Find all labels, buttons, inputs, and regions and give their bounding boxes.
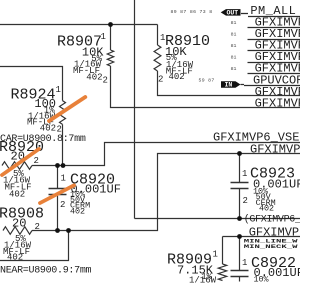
resistor R8910 body <box>154 45 161 71</box>
svg-text:402: 402 <box>169 72 185 82</box>
svg-text:2: 2 <box>158 75 163 85</box>
net row line GFXIMV 6 <box>248 73 301 75</box>
resistor R8909 labels <box>167 252 214 283</box>
junction dot C8923 top <box>237 151 242 156</box>
svg-text:(GFXIMVP6_: (GFXIMVP6_ <box>244 214 300 226</box>
wire R8924 bottom lead <box>62 124 64 165</box>
svg-text:402: 402 <box>70 207 85 217</box>
wire vertical long net x=134 <box>134 0 136 219</box>
port tag OUT <box>221 9 241 16</box>
markup orange stroke R8920 <box>2 149 39 175</box>
svg-text:81: 81 <box>231 55 237 61</box>
wire R8924 top lead from left <box>0 67 63 101</box>
svg-text:81: 81 <box>231 20 237 26</box>
svg-text:1: 1 <box>56 85 61 95</box>
svg-text:GFXIMVP: GFXIMVP <box>250 143 300 157</box>
net row line GFXIMV 3 <box>248 39 301 41</box>
resistor R8924 body <box>60 101 66 125</box>
svg-text:81: 81 <box>231 43 237 49</box>
svg-text:81: 81 <box>231 32 237 38</box>
resistor R8909 body <box>218 264 226 281</box>
net row line GFXIMV 2 <box>248 27 301 29</box>
wire top net to R8907/R8910 <box>0 24 158 26</box>
resistor R8920 body <box>2 162 32 170</box>
markup orange stroke C8920 <box>40 185 74 203</box>
svg-text:10%: 10% <box>254 275 270 285</box>
svg-text:402: 402 <box>9 190 25 200</box>
junction dot C8920/R8920 <box>55 163 60 168</box>
wire R8907 bottom lead to GFXIMV row <box>111 66 301 108</box>
wire R8910 bottom lead to GFXIMV row <box>158 71 301 96</box>
junction dot C8920/R8908 <box>55 228 60 233</box>
wire C8922 top lead <box>239 237 241 271</box>
svg-text:89 87 86 73 8: 89 87 86 73 8 <box>171 9 213 15</box>
capacitor C8923 plates <box>231 183 249 189</box>
wire R8909/C8922 net <box>223 236 301 238</box>
wire C8920 bottom lead <box>57 195 59 231</box>
net row line PM_ALL <box>241 14 300 17</box>
resistor R8924 labels <box>10 87 56 134</box>
svg-text:2: 2 <box>57 125 62 135</box>
wire branch down-left to edge <box>0 231 69 261</box>
resistor R8907 body <box>107 50 113 66</box>
capacitor C8922 plates <box>231 271 249 277</box>
markup orange stroke R8924 <box>49 97 85 121</box>
svg-text:1: 1 <box>242 169 247 179</box>
svg-text:IN: IN <box>225 82 233 89</box>
svg-text:2: 2 <box>60 200 65 210</box>
svg-text:2: 2 <box>34 156 39 166</box>
svg-text:1/16W: 1/16W <box>189 276 217 286</box>
wire R8908 net to GFXIMVP row <box>32 154 300 231</box>
wire C8923 bottom lead <box>239 189 241 219</box>
wire R8907 top lead <box>110 25 112 51</box>
junction dot R8924/R8920 <box>61 163 66 168</box>
port tag IN <box>221 81 241 88</box>
wire R8910 top lead <box>157 25 159 46</box>
resistor R8907 labels <box>57 34 104 83</box>
capacitor C8920 plates <box>49 189 67 195</box>
net row line GFXIMV 5 <box>248 62 301 64</box>
svg-text:OUT: OUT <box>227 10 239 17</box>
wire C8920 top lead <box>57 166 59 189</box>
svg-text:1: 1 <box>242 258 247 268</box>
svg-text:1: 1 <box>213 250 218 260</box>
svg-text:81: 81 <box>231 66 237 72</box>
net row line GPUVCO <box>241 85 301 86</box>
svg-text:402: 402 <box>7 252 23 262</box>
svg-text:402: 402 <box>40 124 56 134</box>
wire C8923 top lead <box>239 154 241 183</box>
resistor R8908 body <box>3 227 32 235</box>
svg-text:59 87: 59 87 <box>199 78 215 84</box>
svg-text:402: 402 <box>86 73 102 83</box>
annotation MIN_NECK_W <box>244 244 298 250</box>
wire R8909 top lead <box>222 237 224 265</box>
svg-text:2: 2 <box>103 76 108 86</box>
svg-text:1: 1 <box>61 174 66 184</box>
net row line GFXIMV 4 <box>248 50 301 52</box>
wire C8922 bottom stub <box>239 277 241 282</box>
svg-text:GFXIMVP: GFXIMVP <box>249 226 299 240</box>
svg-text:402: 402 <box>259 203 274 213</box>
svg-text:2: 2 <box>35 222 40 232</box>
wire R8920 net to GFXIMVP6_VSE <box>32 143 300 166</box>
svg-text:MIN_NECK_W: MIN_NECK_W <box>244 244 298 250</box>
svg-text:2: 2 <box>243 196 248 206</box>
junction dot C8922 top <box>237 234 242 239</box>
junction dot top R8907 <box>108 22 113 27</box>
junction dot C8923 bottom <box>237 216 242 221</box>
wire bottom of x=134 net going right <box>135 218 301 220</box>
svg-text:1: 1 <box>101 32 106 42</box>
junction dot branch R8908 <box>66 228 71 233</box>
svg-text:GFXIMVP: GFXIMVP <box>255 97 300 111</box>
svg-text:NEAR=U8900.9:7mm: NEAR=U8900.9:7mm <box>0 266 92 277</box>
svg-text:20: 20 <box>12 217 26 231</box>
annotation MIN_LINE_W <box>244 239 298 245</box>
